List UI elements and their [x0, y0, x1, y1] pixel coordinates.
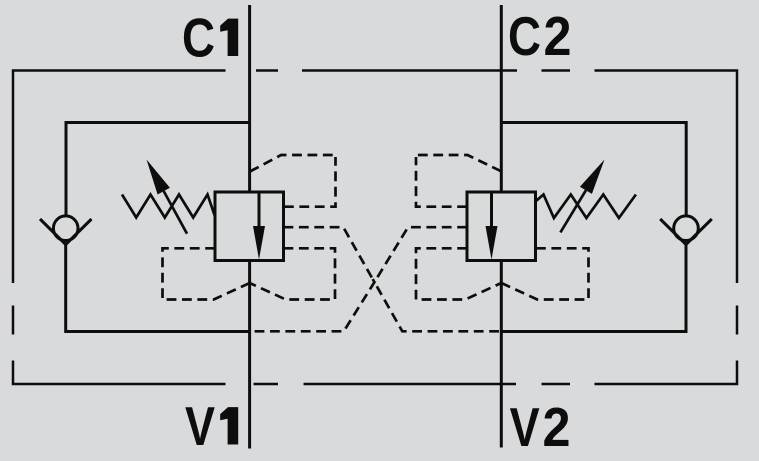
wire right branch lower	[501, 243, 686, 332]
spring left	[122, 195, 215, 218]
housing border top-right segment	[595, 71, 738, 284]
housing border top dashes	[256, 69, 570, 72]
svg-text:V: V	[510, 396, 540, 458]
wire C1 port	[248, 5, 251, 192]
housing border bottom-left segment	[13, 361, 226, 385]
spring right	[536, 195, 636, 219]
valve body V1 square	[215, 192, 284, 261]
housing border bottom-right segment	[595, 361, 738, 385]
svg-text:V: V	[185, 395, 215, 457]
check valve CV1 circle	[53, 216, 78, 241]
check valve CV2 circle	[674, 216, 699, 241]
drain loop valve V1 (dashed, chevron to V1 line)	[163, 248, 250, 299]
wire C2 port	[500, 5, 503, 192]
valve V2 flow arrow	[486, 226, 498, 260]
adjustment arrow left head	[147, 160, 170, 195]
check valve CV2 seat	[660, 219, 712, 245]
valve V1 flow arrow	[253, 226, 265, 260]
drain loop valve V2 (dashed, chevron to V2 line)	[501, 248, 588, 299]
svg-text:2: 2	[543, 396, 571, 458]
valve V2 body square	[467, 192, 536, 261]
wire left branch lower	[66, 243, 250, 332]
svg-text:C: C	[182, 7, 215, 69]
adjustment arrow left shaft	[164, 191, 187, 234]
housing border right dash	[736, 306, 739, 335]
check valve CV1 seat	[40, 219, 92, 245]
wire left branch upper	[66, 123, 250, 217]
svg-text:2: 2	[544, 5, 572, 67]
adjustment arrow right shaft	[560, 190, 586, 232]
pilot line C2 to valve V2 (dashed loop)	[416, 157, 467, 207]
cross pilot line valve V1 to V2 side	[284, 227, 373, 279]
valve V2 internal line	[490, 192, 493, 228]
housing border left dash	[12, 306, 15, 335]
svg-text:C: C	[508, 5, 541, 67]
housing border bottom dashes	[254, 383, 571, 386]
wire right branch upper	[501, 123, 686, 217]
adjustment arrow right head	[580, 160, 605, 194]
pilot line C1 to valve V1 (dashed loop)	[284, 157, 336, 207]
wire V2 port	[500, 261, 503, 448]
cross pilot line valve V2 to V1 side	[376, 227, 467, 279]
wire V1 port	[248, 261, 251, 449]
valve V1 internal line	[258, 192, 261, 228]
housing border top-left segment	[13, 71, 226, 284]
